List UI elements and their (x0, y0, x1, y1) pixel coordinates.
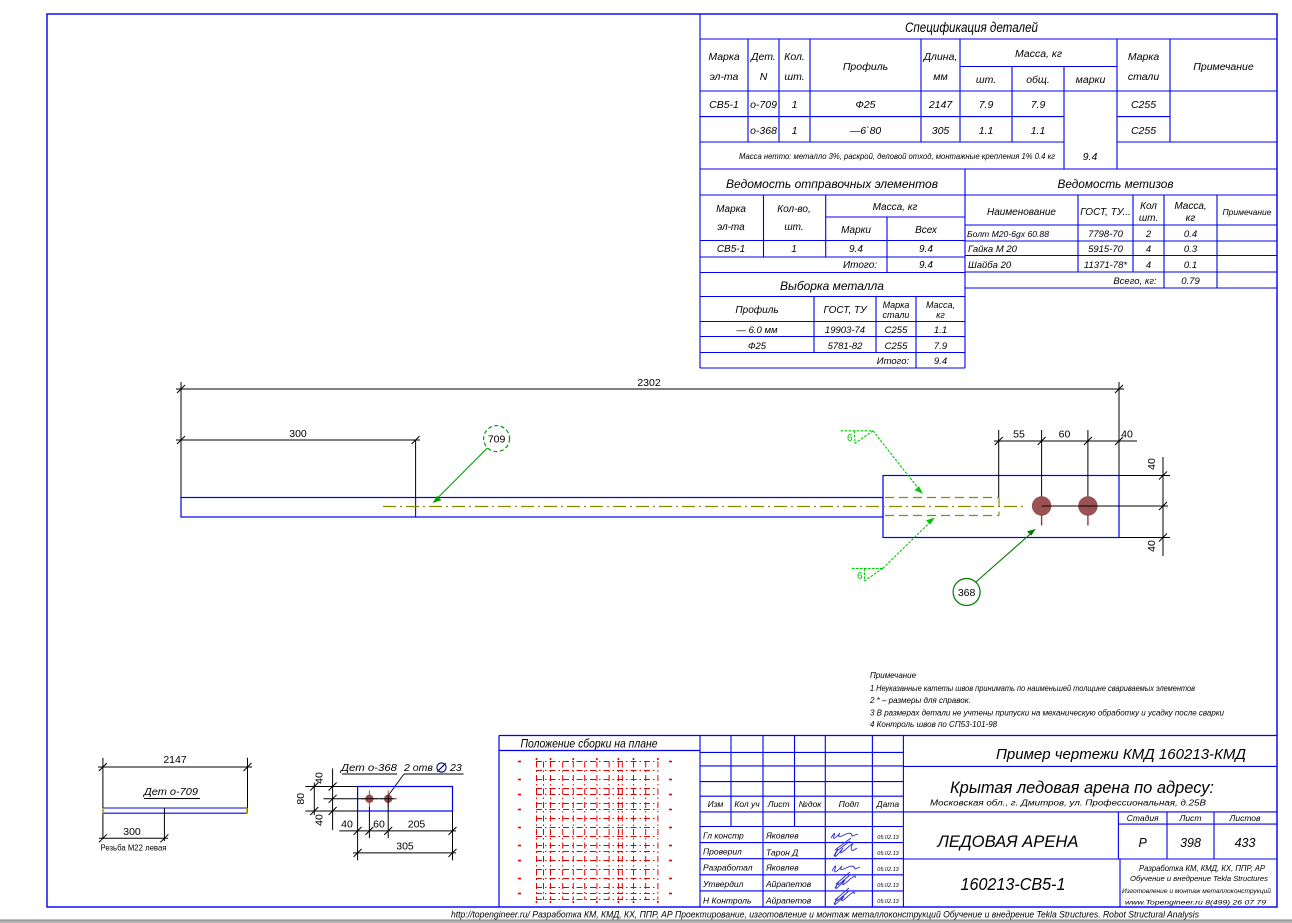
svg-text:300: 300 (289, 428, 307, 440)
svg-text:Всего, кг:: Всего, кг: (1113, 276, 1157, 287)
svg-text:6: 6 (847, 433, 853, 444)
svg-text:9.4: 9.4 (934, 356, 947, 367)
svg-text:Подп: Подп (839, 799, 860, 809)
svg-text:0.79: 0.79 (1181, 276, 1200, 287)
dimension 300 (left) (176, 433, 420, 497)
svg-text:Профиль: Профиль (843, 61, 888, 73)
svg-text:80: 80 (295, 793, 307, 805)
svg-text:Кол-во,: Кол-во, (777, 204, 811, 215)
svg-text:55: 55 (1013, 429, 1025, 441)
svg-text:Пример чертежи КМД 160213-КМД: Пример чертежи КМД 160213-КМД (996, 747, 1246, 763)
svg-text:Кол.: Кол. (784, 51, 805, 63)
svg-text:40: 40 (314, 814, 326, 826)
svg-text:160213-СВ5-1: 160213-СВ5-1 (961, 874, 1066, 894)
rod side view (thin strip) (103, 808, 248, 813)
svg-text:Кол: Кол (1140, 201, 1157, 212)
svg-text:Наименование: Наименование (987, 207, 1056, 218)
svg-text:стали: стали (883, 310, 910, 320)
centerline dash-dot (383, 506, 1026, 508)
svg-text:Масса нетто: металло 3%, раскр: Масса нетто: металло 3%, раскрой, делово… (739, 152, 1055, 161)
hole leader (389, 774, 464, 795)
weld symbol top (6) (841, 431, 921, 492)
svg-text:Шайба 20: Шайба 20 (968, 260, 1012, 271)
svg-text:Р: Р (1139, 836, 1148, 850)
svg-text:Масса, кг: Масса, кг (873, 202, 918, 213)
dimensions 55 60 40 (top of plate) (994, 430, 1137, 506)
svg-text:368: 368 (958, 587, 976, 599)
svg-text:Итого:: Итого: (843, 260, 877, 271)
svg-text:марки: марки (1076, 74, 1106, 86)
svg-text:9.4: 9.4 (919, 260, 933, 271)
svg-text:2147: 2147 (928, 99, 954, 111)
svg-text:Разработка КМ, КМД, КХ, ППР, А: Разработка КМ, КМД, КХ, ППР, АР (1139, 864, 1266, 873)
svg-text:Айрапетов: Айрапетов (765, 895, 812, 905)
svg-text:№док: №док (799, 799, 823, 809)
svg-text:40: 40 (314, 772, 326, 784)
svg-text:60: 60 (1059, 429, 1071, 441)
svg-text:Марка: Марка (883, 300, 910, 310)
bottom dims 40/60/205 (339, 795, 456, 860)
svg-text:кг: кг (1186, 213, 1196, 224)
svg-text:Марки: Марки (841, 225, 871, 236)
svg-text:ЛЕДОВАЯ АРЕНА: ЛЕДОВАЯ АРЕНА (937, 832, 1079, 851)
svg-text:ГОСТ, ТУ...: ГОСТ, ТУ... (1080, 207, 1131, 218)
svg-text:Масса,: Масса, (926, 300, 955, 310)
dim 300 (thread) (99, 808, 168, 842)
svg-text:05.02.13: 05.02.13 (877, 883, 899, 889)
svg-text:4 Контроль швов по СП53-101-9: 4 Контроль швов по СП53-101-98 (870, 720, 998, 729)
svg-text:Яковлев: Яковлев (765, 863, 799, 873)
rod end marks (102, 808, 104, 813)
svg-text:С255: С255 (1131, 125, 1156, 137)
svg-text:Дата: Дата (876, 799, 900, 809)
svg-text:Лист: Лист (767, 799, 790, 809)
svg-text:Стадия: Стадия (1127, 813, 1159, 823)
svg-text:7798-70: 7798-70 (1088, 229, 1124, 240)
svg-text:шт.: шт. (784, 222, 803, 233)
svg-text:6: 6 (857, 571, 863, 582)
svg-text:Примечание: Примечание (870, 671, 917, 680)
svg-text:стали: стали (1128, 71, 1160, 83)
spec table texts (905, 20, 1038, 35)
dimension 2302 (176, 382, 1124, 497)
svg-text:205: 205 (408, 819, 426, 831)
svg-text:Ф25: Ф25 (748, 341, 767, 352)
svg-text:Спецификация деталей: Спецификация деталей (905, 20, 1038, 35)
svg-text:0.4: 0.4 (1184, 229, 1197, 240)
svg-text:Выборка металла: Выборка металла (780, 279, 884, 293)
svg-text:2: 2 (1145, 229, 1152, 240)
hole 2 (380, 791, 397, 808)
svg-text:Положение сборки на плане: Положение сборки на плане (521, 739, 658, 751)
svg-text:Разработал: Разработал (703, 863, 753, 873)
hidden rod inside plate (dashed) (885, 498, 999, 516)
bolt axis line (1042, 505, 1168, 507)
end plate (о-368) (883, 476, 1119, 538)
svg-text:Марка: Марка (716, 204, 746, 215)
signatures (blue scribbles) (831, 833, 860, 905)
svg-text:С255: С255 (1131, 99, 1156, 111)
left dims 40/80/40 (305, 768, 357, 830)
svg-text:Гайка М 20: Гайка М 20 (968, 244, 1018, 255)
balloon 709 (484, 426, 510, 452)
svg-text:1.1: 1.1 (934, 325, 947, 336)
svg-text:4: 4 (1146, 244, 1151, 255)
svg-text:7.9: 7.9 (1031, 99, 1046, 111)
svg-text:5781-82: 5781-82 (828, 341, 864, 352)
svg-text:эл-та: эл-та (710, 71, 739, 83)
svg-text:05.02.13: 05.02.13 (877, 899, 899, 905)
svg-text:Резьба М22 левая: Резьба М22 левая (101, 843, 167, 853)
svg-text:Обучение и внедрение Tekla St: Обучение и внедрение Tekla Structures (1130, 874, 1268, 883)
svg-text:3 В размерах детали не учтены: 3 В размерах детали не учтены припуски н… (870, 709, 1225, 718)
svg-text:Московская обл., г. Дмитров, у: Московская обл., г. Дмитров, ул. Професс… (930, 799, 1207, 808)
svg-text:С255: С255 (885, 325, 908, 336)
svg-text:05.02.13: 05.02.13 (877, 851, 899, 857)
svg-text:Айрапетов: Айрапетов (765, 879, 812, 889)
svg-text:Проверил: Проверил (703, 847, 742, 857)
svg-text:Листов: Листов (1229, 813, 1262, 823)
svg-text:9.4: 9.4 (1083, 151, 1098, 163)
svg-text:709: 709 (488, 434, 506, 446)
svg-text:19903-74: 19903-74 (825, 325, 865, 336)
dim 2147 (98, 758, 252, 839)
svg-text:2147: 2147 (163, 754, 187, 766)
svg-text:05.02.13: 05.02.13 (877, 835, 899, 841)
svg-text:Дет о-368: Дет о-368 (340, 762, 397, 774)
bolt hole 1 (1032, 496, 1051, 515)
svg-text:1.1: 1.1 (1031, 125, 1046, 137)
svg-text:общ.: общ. (1026, 74, 1050, 86)
svg-text:шт.: шт. (784, 71, 804, 83)
rod body (Ф25 side view) (181, 498, 883, 518)
svg-text:5915-70: 5915-70 (1088, 244, 1124, 255)
svg-text:Итого:: Итого: (877, 356, 910, 367)
svg-text:0.1: 0.1 (1184, 260, 1197, 271)
bolt hole 2 (1078, 496, 1097, 515)
svg-text:9.4: 9.4 (919, 244, 933, 255)
weld symbol bottom (6) (852, 520, 933, 582)
svg-text:Марка: Марка (708, 51, 740, 63)
svg-text:1.1: 1.1 (979, 125, 994, 137)
svg-text:Профиль: Профиль (735, 304, 778, 316)
svg-text:1: 1 (792, 125, 798, 137)
svg-text:9.4: 9.4 (849, 244, 863, 255)
svg-text:Примечание: Примечание (1223, 207, 1272, 217)
svg-text:1: 1 (792, 99, 798, 111)
svg-text:Дет.: Дет. (750, 51, 776, 63)
svg-text:СВ5-1: СВ5-1 (717, 244, 745, 255)
svg-text:60: 60 (373, 819, 385, 831)
svg-text:Изм: Изм (708, 799, 724, 809)
svg-text:7.9: 7.9 (934, 341, 948, 352)
svg-text:Яковлев: Яковлев (765, 831, 799, 841)
svg-text:Ф25: Ф25 (855, 99, 875, 111)
bottom gray bar (0, 919, 1292, 921)
svg-text:305: 305 (396, 841, 414, 853)
svg-text:Всех: Всех (915, 225, 938, 236)
svg-text:0.3: 0.3 (1184, 244, 1198, 255)
svg-text:2 * – размеры для справок.: 2 * – размеры для справок. (869, 696, 971, 705)
svg-text:шт.: шт. (976, 74, 996, 86)
svg-text:Ведомость метизов: Ведомость метизов (1058, 177, 1174, 191)
svg-text:398: 398 (1180, 836, 1201, 850)
svg-text:40: 40 (341, 819, 353, 831)
svg-text:Масса, кг: Масса, кг (1015, 48, 1062, 60)
svg-text:11371-78*: 11371-78* (1084, 260, 1127, 271)
svg-text:СВ5-1: СВ5-1 (709, 99, 739, 111)
svg-text:эл-та: эл-та (717, 222, 745, 233)
right vertical dimension 40/40 (1119, 457, 1170, 556)
dim 305 (353, 849, 457, 857)
svg-text:Масса,: Масса, (1174, 201, 1206, 212)
svg-text:Длина,: Длина, (923, 51, 958, 63)
svg-text:2302: 2302 (637, 377, 661, 389)
svg-text:http://topengineer.ru/ Разраб: http://topengineer.ru/ Разработка КМ, КМ… (451, 910, 1200, 920)
svg-text:Болт М20-6gх 60.88: Болт М20-6gх 60.88 (967, 229, 1049, 239)
svg-text:www.Topengineer.ru 8(499: www.Topengineer.ru 8(499) 26 07 79 (1125, 900, 1266, 907)
svg-text:Утвердил: Утвердил (702, 879, 744, 889)
svg-text:4: 4 (1146, 260, 1151, 271)
rod segment boundary at 300 (415, 498, 417, 518)
svg-text:—6`80: —6`80 (849, 125, 882, 137)
svg-text:Примечание: Примечание (1193, 61, 1254, 73)
svg-text:05.02.13: 05.02.13 (877, 867, 899, 873)
svg-text:433: 433 (1235, 836, 1256, 850)
svg-text:— 6.0 мм: — 6.0 мм (735, 325, 777, 336)
balloon 368 (953, 579, 980, 606)
svg-text:шт.: шт. (1139, 213, 1158, 224)
svg-text:о-709: о-709 (750, 99, 777, 111)
svg-text:23: 23 (449, 762, 462, 774)
svg-text:N: N (760, 71, 768, 83)
svg-text:305: 305 (932, 125, 950, 137)
plate о-368 (358, 787, 453, 812)
svg-text:Марка: Марка (1128, 51, 1160, 63)
hole axis (324, 798, 395, 800)
svg-text:Лист: Лист (1179, 813, 1202, 823)
svg-text:Тарон Д: Тарон Д (766, 848, 798, 858)
svg-text:40: 40 (1146, 540, 1158, 552)
svg-text:1 Неуказанные катеты швов при: 1 Неуказанные катеты швов принимать по н… (870, 684, 1195, 693)
svg-text:1: 1 (791, 244, 797, 255)
svg-text:Ведомость отправочных элементо: Ведомость отправочных элементов (726, 177, 938, 191)
svg-text:7.9: 7.9 (979, 99, 994, 111)
svg-text:о-368: о-368 (750, 125, 777, 137)
svg-text:С255: С255 (885, 341, 908, 352)
hole 1 (361, 791, 378, 808)
svg-text:Дет о-709: Дет о-709 (143, 786, 198, 798)
svg-text:кг: кг (936, 310, 945, 320)
svg-text:Изготовление и монтаж металлок: Изготовление и монтаж металлоконструкций (1122, 887, 1271, 895)
svg-text:Крытая ледовая арена по адресу: Крытая ледовая арена по адресу: (950, 779, 1214, 797)
svg-text:40: 40 (1121, 429, 1133, 441)
svg-text:Кол уч: Кол уч (734, 799, 760, 809)
assembly position red grid (518, 758, 672, 903)
svg-text:мм: мм (933, 71, 947, 83)
svg-text:2 отв: 2 отв (403, 762, 433, 774)
svg-text:Н Контроль: Н Контроль (703, 895, 751, 905)
svg-text:ГОСТ, ТУ: ГОСТ, ТУ (823, 305, 868, 316)
svg-text:Гл констр: Гл констр (703, 831, 744, 841)
svg-text:300: 300 (123, 826, 141, 838)
svg-text:40: 40 (1146, 458, 1158, 470)
